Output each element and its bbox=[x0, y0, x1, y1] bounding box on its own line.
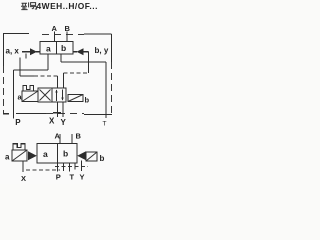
main valve T path bbox=[61, 54, 106, 118]
svg-text:b: b bbox=[63, 149, 68, 159]
enclosure (dash-dot subplate boundary) top edge bbox=[3, 33, 29, 35]
svg-text:X: X bbox=[21, 174, 26, 183]
main valve box (positions a|b) bbox=[40, 42, 73, 55]
svg-text:Y: Y bbox=[61, 118, 67, 127]
solenoid a box bbox=[12, 150, 27, 161]
pilot valve A' drop bbox=[57, 76, 59, 89]
svg-text:b, y: b, y bbox=[95, 46, 109, 55]
right hydraulic pilot triangle bbox=[77, 151, 86, 160]
enclosure bottom edge bbox=[3, 113, 46, 115]
detent symbol bbox=[13, 144, 27, 150]
pilot Y drain line bbox=[62, 102, 64, 117]
valve divider bbox=[57, 144, 59, 164]
X pilot drop bbox=[22, 161, 24, 172]
dashed pilot line X (lower) bbox=[26, 169, 60, 171]
enclosure left edge bbox=[3, 34, 5, 67]
stub 2 bbox=[63, 163, 65, 171]
right pilot arrowhead bbox=[77, 48, 84, 55]
left pilot x-line drop bbox=[20, 54, 26, 77]
pilot valve B' drop bbox=[63, 73, 65, 89]
pilot solenoid b box bbox=[68, 95, 83, 102]
pilot valve crossed arrows (left box) bbox=[40, 90, 51, 101]
dashed pilot line Y (upper) bbox=[55, 166, 88, 168]
svg-text:4WEH..H/OF...: 4WEH..H/OF... bbox=[37, 1, 98, 11]
pilot X supply line bbox=[53, 102, 61, 117]
svg-text:Y: Y bbox=[80, 173, 85, 182]
valve box bbox=[37, 144, 77, 164]
title 型号 (CJK, hand drawn) bbox=[21, 2, 37, 9]
svg-text:a: a bbox=[43, 149, 48, 159]
pilot valve boxes bbox=[38, 88, 66, 102]
port T stub bbox=[69, 163, 71, 172]
left pilot arrowhead bbox=[30, 48, 37, 55]
port B line bbox=[71, 134, 73, 144]
stub 4 bbox=[74, 163, 76, 170]
pilot solenoid a box bbox=[22, 91, 38, 102]
pilot valve parallel arrows (right box) bbox=[56, 90, 58, 101]
right pilot arrow line + elbow down bbox=[73, 52, 89, 73]
enclosure right edge bbox=[111, 34, 113, 62]
Y drop from right pilot bbox=[81, 161, 83, 172]
svg-text:b: b bbox=[100, 154, 105, 163]
left pilot horizontal (solid then dashed) to pilot valve port bbox=[20, 75, 34, 77]
right pilot dashed line to pilot valve port bbox=[64, 72, 89, 74]
svg-text:P: P bbox=[56, 173, 61, 182]
svg-text:X: X bbox=[49, 117, 55, 126]
left pilot arrow line bbox=[22, 51, 30, 53]
svg-text:B: B bbox=[76, 132, 82, 141]
svg-text:P: P bbox=[15, 118, 21, 127]
left hydraulic pilot triangle bbox=[28, 151, 37, 160]
main valve P path bbox=[14, 54, 49, 119]
port A line bbox=[54, 32, 56, 42]
port B line bbox=[66, 32, 68, 42]
solenoid b box bbox=[86, 152, 97, 161]
svg-text:T: T bbox=[103, 121, 107, 128]
port P stub bbox=[57, 163, 59, 172]
svg-text:b: b bbox=[61, 43, 66, 53]
svg-text:a: a bbox=[5, 153, 10, 162]
pilot valve detent symbol bbox=[23, 86, 34, 92]
port A line bbox=[59, 134, 61, 144]
svg-text:T: T bbox=[70, 173, 75, 182]
main valve divider bbox=[56, 42, 58, 55]
svg-text:a: a bbox=[46, 44, 51, 54]
svg-text:b: b bbox=[85, 96, 90, 105]
svg-text:a, x: a, x bbox=[6, 47, 20, 56]
